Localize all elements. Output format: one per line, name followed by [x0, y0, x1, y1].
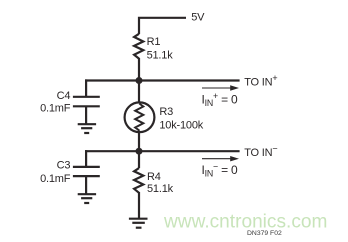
svg-text:10k-100k: 10k-100k — [159, 119, 203, 131]
capacitor C3 bottom plate — [73, 175, 100, 177]
node IN- horizontal wire — [85, 150, 240, 152]
capacitor C3 top plate — [73, 166, 100, 168]
svg-text:C3: C3 — [57, 160, 71, 172]
wire: 5V supply lead — [139, 18, 186, 34]
junction dot at node IN- — [136, 148, 143, 155]
wire: R3 bottom lead to node IN- — [138, 131, 140, 169]
node IN+ horizontal wire — [85, 79, 240, 81]
svg-text:5V: 5V — [191, 12, 205, 24]
resistor R1 — [134, 34, 143, 59]
svg-text:DN379 F02: DN379 F02 — [247, 230, 282, 237]
current arrow IIN- — [202, 156, 239, 161]
current arrow IIN+ — [202, 85, 239, 90]
junction dot at node IN+ — [136, 77, 143, 84]
wire: C3 bottom lead — [85, 176, 87, 194]
thermistor R3 zigzag element — [135, 104, 143, 131]
ground symbol under C3 — [78, 194, 96, 203]
svg-text:C4: C4 — [57, 90, 71, 102]
svg-text:0.1mF: 0.1mF — [40, 173, 71, 185]
thermistor R3 (circle) — [125, 102, 155, 132]
ground symbol under C4 — [78, 124, 96, 133]
svg-text:R1: R1 — [147, 36, 161, 48]
svg-text:0.1mF: 0.1mF — [40, 103, 71, 115]
wire: C4 bottom lead — [85, 106, 87, 124]
svg-text:R3: R3 — [159, 106, 173, 118]
svg-text:51.1k: 51.1k — [147, 183, 174, 195]
svg-text:R4: R4 — [147, 171, 161, 183]
svg-text:51.1k: 51.1k — [147, 49, 174, 61]
wire: stub from node IN+ down to C4 — [85, 79, 87, 96]
wire: stub from node IN- down to C3 — [85, 150, 87, 167]
capacitor C4 bottom plate — [73, 105, 100, 107]
ground symbol under R4 — [129, 219, 148, 228]
resistor R4 — [134, 168, 143, 193]
capacitor C4 top plate — [73, 96, 100, 98]
wire: R4 bottom lead to ground — [138, 192, 140, 219]
svg-text:www.cntronics.com: www.cntronics.com — [163, 212, 327, 233]
wire: R1 bottom lead to node IN+ — [138, 58, 140, 103]
